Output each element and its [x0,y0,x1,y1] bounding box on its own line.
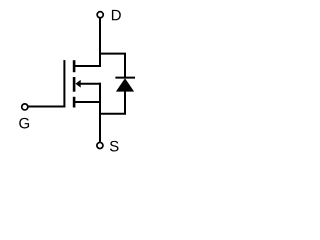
terminal D circle [97,12,103,18]
terminal S circle [97,142,103,148]
diode D1 cathode bar [115,77,135,79]
wire: source vertical down to S terminal [99,83,101,142]
label D [112,10,121,20]
label S [110,141,119,152]
terminal G circle [22,104,28,110]
label G [19,118,29,129]
transistor Q1 channel dash middle [73,77,76,92]
wire: drain vertical from D terminal down to MOSFET drain stub [99,18,101,67]
wire: MOSFET body stub [80,83,101,85]
wire: MOSFET drain stub [75,65,101,67]
transistor Q1 channel dash top [73,60,76,72]
arrow on body stub (points left, N-channel) [75,80,80,88]
diode D1 triangle (anode, pointing up) [116,78,134,91]
transistor Q1 gate bar [63,60,65,106]
wire: top branch from drain to diode cathode [99,54,125,78]
transistor Q1 channel dash bottom [73,97,76,108]
wire: gate horizontal from G terminal to gate bar [28,106,65,108]
wire: MOSFET source stub [75,101,101,103]
wire: diode anode vertical and bottom branch to source [99,91,125,114]
